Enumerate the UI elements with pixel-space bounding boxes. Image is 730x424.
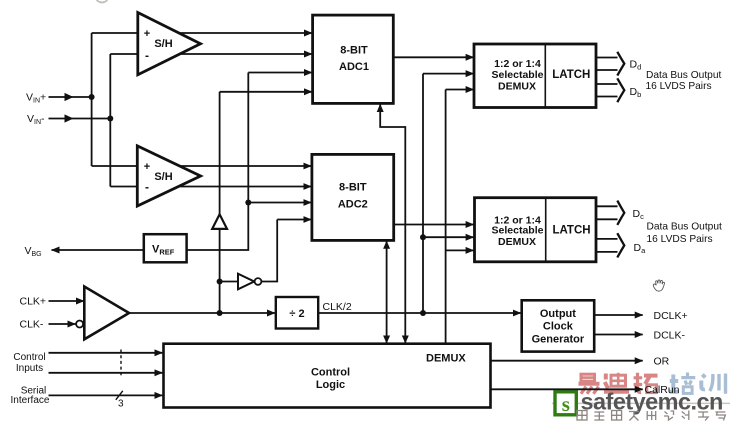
- stray gray mark top-left: [97, 0, 108, 3]
- svg-text:+: +: [144, 28, 150, 40]
- svg-text:s: s: [562, 392, 570, 416]
- wire clock vertical: [219, 92, 221, 313]
- wire control input 1: [49, 352, 163, 354]
- buffer clock input: [84, 287, 129, 340]
- svg-text:3: 3: [118, 399, 124, 410]
- wire control to ADC1 clock: [380, 104, 405, 343]
- svg-text:CLK+: CLK+: [20, 296, 47, 308]
- node CLK/2 demux-clock junction: [420, 310, 426, 316]
- svg-text:-: -: [145, 49, 149, 63]
- block output clock generator: [522, 300, 595, 351]
- svg-text:Selectable: Selectable: [492, 225, 544, 237]
- wire S/H2 + input to ADC2 in1: [92, 165, 312, 167]
- node clock inverter tap: [217, 279, 223, 285]
- svg-text:Generator: Generator: [532, 333, 585, 345]
- block DEMUX1/LATCH: [474, 44, 596, 108]
- wire control to ADC2 clock: [386, 241, 388, 343]
- hand cursor icon: [653, 280, 664, 291]
- svg-text:ADC1: ADC1: [339, 61, 369, 73]
- svg-text:DCLK-: DCLK-: [654, 329, 686, 341]
- node clock line junction: [217, 310, 223, 316]
- BLOCKS: [76, 13, 624, 408]
- svg-text:CLK/2: CLK/2: [323, 301, 352, 313]
- svg-text:Data Bus Output: Data Bus Output: [647, 222, 722, 233]
- watermark char tuo (pink): [634, 373, 658, 393]
- block ADC2: [312, 154, 394, 240]
- svg-text:Clock: Clock: [543, 320, 574, 332]
- wire clock to ADC1 in4: [220, 91, 312, 93]
- wire VIN- vertical bus: [109, 54, 111, 187]
- svg-text:+: +: [144, 161, 150, 173]
- svg-text:Output: Output: [540, 308, 576, 320]
- svg-text:Control: Control: [311, 366, 350, 378]
- block VREF: [144, 234, 187, 262]
- svg-text:÷ 2: ÷ 2: [289, 308, 304, 320]
- wire demux select to DEMUX2 in3: [446, 249, 474, 251]
- watermark slogan gray chars: [577, 411, 725, 421]
- watermark strike line: [552, 402, 730, 404]
- svg-text:Interface: Interface: [11, 395, 50, 406]
- wire VIN+ vertical bus: [91, 33, 93, 166]
- wire VIN+ input: [49, 96, 92, 98]
- wire VREF branch to ADC2 in3: [248, 202, 311, 204]
- bus slash serial: [116, 391, 123, 400]
- watermark char yi (pink): [579, 374, 600, 394]
- lvds arrow Da: [596, 233, 624, 257]
- wire S/H2 - input to ADC2 in2: [110, 186, 311, 188]
- watermark char xun (blue): [701, 374, 725, 394]
- svg-text:DCLK+: DCLK+: [654, 310, 688, 322]
- svg-text:8-BIT: 8-BIT: [340, 44, 368, 56]
- svg-text:ADC2: ADC2: [338, 198, 368, 210]
- wire demux select vertical: [445, 90, 447, 344]
- wire demux clock to DEMUX2 in2: [423, 236, 474, 238]
- wire DCLK- output: [594, 334, 643, 336]
- node VREF branch: [245, 200, 251, 206]
- wire demux select to DEMUX1 in3: [446, 89, 474, 91]
- wire serial interface: [49, 394, 163, 396]
- wire demux clock to DEMUX1 in2: [423, 73, 474, 75]
- node VIN+ junction: [89, 94, 95, 100]
- wire VREF to vertical: [187, 73, 249, 251]
- wire DCLK+ output: [594, 314, 643, 316]
- inverter clock: [238, 274, 254, 290]
- lvds arrow Dc: [596, 201, 624, 225]
- wire S/H1 - input to ADC1 in2: [110, 53, 312, 55]
- buffer clock up-triangle: [212, 214, 227, 229]
- block divide-by-2: [276, 297, 318, 329]
- svg-text:DEMUX: DEMUX: [498, 80, 536, 92]
- svg-text:Inputs: Inputs: [16, 363, 43, 374]
- wire S/H1 + input to ADC1 in1: [92, 32, 312, 34]
- lvds arrow Dd: [596, 52, 624, 76]
- block control logic: [164, 344, 491, 408]
- op-amp S/H 1: [138, 13, 201, 75]
- WATERMARK: [552, 373, 730, 421]
- wire clock buffer out: [129, 312, 275, 314]
- wire CLK- input: [49, 323, 76, 325]
- wire VREF branch to ADC1 in3: [248, 72, 312, 74]
- wire CLK/2 to output clock generator: [318, 312, 521, 314]
- wire inverter output to ADC2 in4: [261, 220, 277, 282]
- block ADC1: [313, 15, 394, 103]
- wire ADC2 to DEMUX2 in1: [394, 224, 474, 226]
- wire ADC1 to DEMUX1 in1: [393, 56, 473, 58]
- op-amp S/H 2: [137, 146, 200, 206]
- node demux clock branch: [420, 234, 426, 240]
- svg-text:S/H: S/H: [154, 38, 172, 50]
- svg-text:LATCH: LATCH: [552, 69, 590, 81]
- svg-text:Control: Control: [13, 352, 45, 363]
- node VIN- junction: [107, 116, 113, 122]
- wire inverter input: [220, 281, 238, 283]
- lvds arrow Db: [596, 78, 624, 102]
- watermark char di (pink): [604, 373, 629, 392]
- svg-text:S/H: S/H: [154, 171, 172, 183]
- wire VIN- input: [49, 118, 111, 120]
- svg-text:CLK-: CLK-: [20, 319, 44, 331]
- svg-text:Selectable: Selectable: [492, 69, 544, 81]
- wire CLK+ input: [49, 300, 85, 302]
- svg-text:8-BIT: 8-BIT: [339, 182, 367, 194]
- wire demux clock vertical: [422, 74, 424, 313]
- svg-text:Logic: Logic: [316, 379, 345, 391]
- block DEMUX2/LATCH: [475, 198, 597, 262]
- wire CalRun output: [491, 388, 643, 390]
- wire control inputs dashed ellipsis: [120, 350, 122, 377]
- svg-text:-: -: [145, 180, 149, 194]
- svg-text:LATCH: LATCH: [552, 224, 590, 236]
- svg-text:DEMUX: DEMUX: [426, 353, 466, 365]
- wire control input 2: [49, 372, 163, 374]
- svg-text:OR: OR: [654, 356, 670, 368]
- svg-text:CalRun: CalRun: [645, 384, 680, 396]
- svg-text:DEMUX: DEMUX: [498, 236, 536, 248]
- watermark char pei (blue): [670, 373, 696, 394]
- bubble CLK-: [76, 321, 83, 328]
- wire OR output: [491, 360, 643, 362]
- watermark safetyemc green logo box: [555, 392, 576, 415]
- svg-text:16 LVDS Pairs: 16 LVDS Pairs: [646, 81, 712, 92]
- wire VBG output: [52, 249, 145, 251]
- svg-text:Data Bus Output: Data Bus Output: [646, 70, 721, 81]
- svg-text:16 LVDS Pairs: 16 LVDS Pairs: [647, 234, 713, 245]
